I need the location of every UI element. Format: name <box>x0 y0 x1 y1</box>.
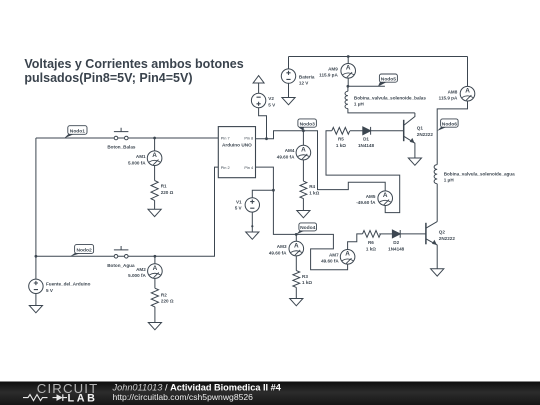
svg-text:D2: D2 <box>393 240 399 245</box>
svg-text:2N2222: 2N2222 <box>439 236 456 241</box>
svg-text:Nodo5: Nodo5 <box>381 76 396 82</box>
svg-text:1N4148: 1N4148 <box>358 143 375 148</box>
svg-text:1N4148: 1N4148 <box>388 247 405 252</box>
svg-text:R6: R6 <box>368 240 374 245</box>
svg-text:Nodo3: Nodo3 <box>300 121 315 127</box>
svg-text:Pin 4: Pin 4 <box>244 165 254 170</box>
svg-text:V2: V2 <box>268 96 274 101</box>
svg-text:AM4: AM4 <box>285 148 295 153</box>
svg-text:Pin 2: Pin 2 <box>221 165 230 170</box>
svg-text:AM2: AM2 <box>136 267 146 272</box>
svg-text:Nodo4: Nodo4 <box>300 225 315 231</box>
svg-text:AM9: AM9 <box>328 66 338 71</box>
svg-text:AM5: AM5 <box>366 194 376 199</box>
svg-text:Q1: Q1 <box>417 125 424 130</box>
svg-text:John011013 / Actividad Biomedi: John011013 / Actividad Biomedica II #4 <box>112 383 282 393</box>
svg-text:220 Ω: 220 Ω <box>161 190 174 195</box>
svg-text:49.60 fA: 49.60 fA <box>277 154 295 159</box>
svg-text:1 μH: 1 μH <box>354 102 365 107</box>
svg-text:LAB: LAB <box>68 393 98 405</box>
svg-text:Nodo6: Nodo6 <box>442 121 457 127</box>
svg-text:R1: R1 <box>161 184 167 189</box>
svg-text:1 kΩ: 1 kΩ <box>366 247 376 252</box>
svg-text:Pin 7: Pin 7 <box>221 136 230 141</box>
svg-text:AM3: AM3 <box>277 244 287 249</box>
svg-text:AM1: AM1 <box>136 154 146 159</box>
svg-text:49.60 fA: 49.60 fA <box>321 259 339 264</box>
svg-text:R2: R2 <box>161 292 167 297</box>
svg-text:Pin 8: Pin 8 <box>244 136 253 141</box>
svg-text:Nodo2: Nodo2 <box>76 247 91 253</box>
svg-text:220 Ω: 220 Ω <box>161 298 174 303</box>
svg-text:115.9 pA: 115.9 pA <box>319 73 338 78</box>
svg-text:http://circuitlab.com/csh5pwnw: http://circuitlab.com/csh5pwnwg8526 <box>113 392 254 402</box>
svg-text:AM8: AM8 <box>448 89 458 94</box>
svg-text:12 V: 12 V <box>299 81 309 86</box>
svg-text:D1: D1 <box>363 137 369 142</box>
svg-text:Bateria: Bateria <box>299 75 315 80</box>
svg-text:49.60 fA: 49.60 fA <box>269 250 287 255</box>
svg-text:5.000 fA: 5.000 fA <box>128 160 146 165</box>
svg-text:R3: R3 <box>302 274 308 279</box>
svg-text:1 kΩ: 1 kΩ <box>336 143 346 148</box>
svg-text:Arduino UNO: Arduino UNO <box>222 143 252 148</box>
svg-text:5 V: 5 V <box>46 288 54 293</box>
svg-text:R5: R5 <box>338 137 344 142</box>
svg-text:1 kΩ: 1 kΩ <box>309 190 319 195</box>
svg-text:Q2: Q2 <box>439 229 446 234</box>
svg-text:5 V: 5 V <box>268 102 276 107</box>
svg-text:Bobina_valvula_solenoide_balas: Bobina_valvula_solenoide_balas <box>354 95 426 100</box>
svg-text:AM7: AM7 <box>329 252 339 257</box>
svg-text:1 μH: 1 μH <box>444 178 455 183</box>
svg-text:R4: R4 <box>309 184 315 189</box>
svg-text:2N2222: 2N2222 <box>417 132 434 137</box>
svg-text:1 kΩ: 1 kΩ <box>302 280 312 285</box>
svg-text:V1: V1 <box>236 199 242 204</box>
svg-text:Fuente_del_Arduino: Fuente_del_Arduino <box>46 282 91 287</box>
svg-text:115.9 pA: 115.9 pA <box>439 96 458 101</box>
svg-text:5.000 fA: 5.000 fA <box>128 273 146 278</box>
svg-text:pulsados(Pin8=5V; Pin4=5V): pulsados(Pin8=5V; Pin4=5V) <box>24 71 192 85</box>
svg-text:Nodo1: Nodo1 <box>70 128 85 134</box>
svg-text:Voltajes y Corrientes ambos bo: Voltajes y Corrientes ambos botones <box>24 57 243 71</box>
svg-text:Boton_Balas: Boton_Balas <box>107 144 136 149</box>
svg-text:-49.60 fA: -49.60 fA <box>356 200 376 205</box>
svg-text:Boton_Agua: Boton_Agua <box>107 263 135 268</box>
svg-text:Bobina_valvula_solenoide_agua: Bobina_valvula_solenoide_agua <box>444 171 515 176</box>
svg-text:5 V: 5 V <box>235 206 243 211</box>
